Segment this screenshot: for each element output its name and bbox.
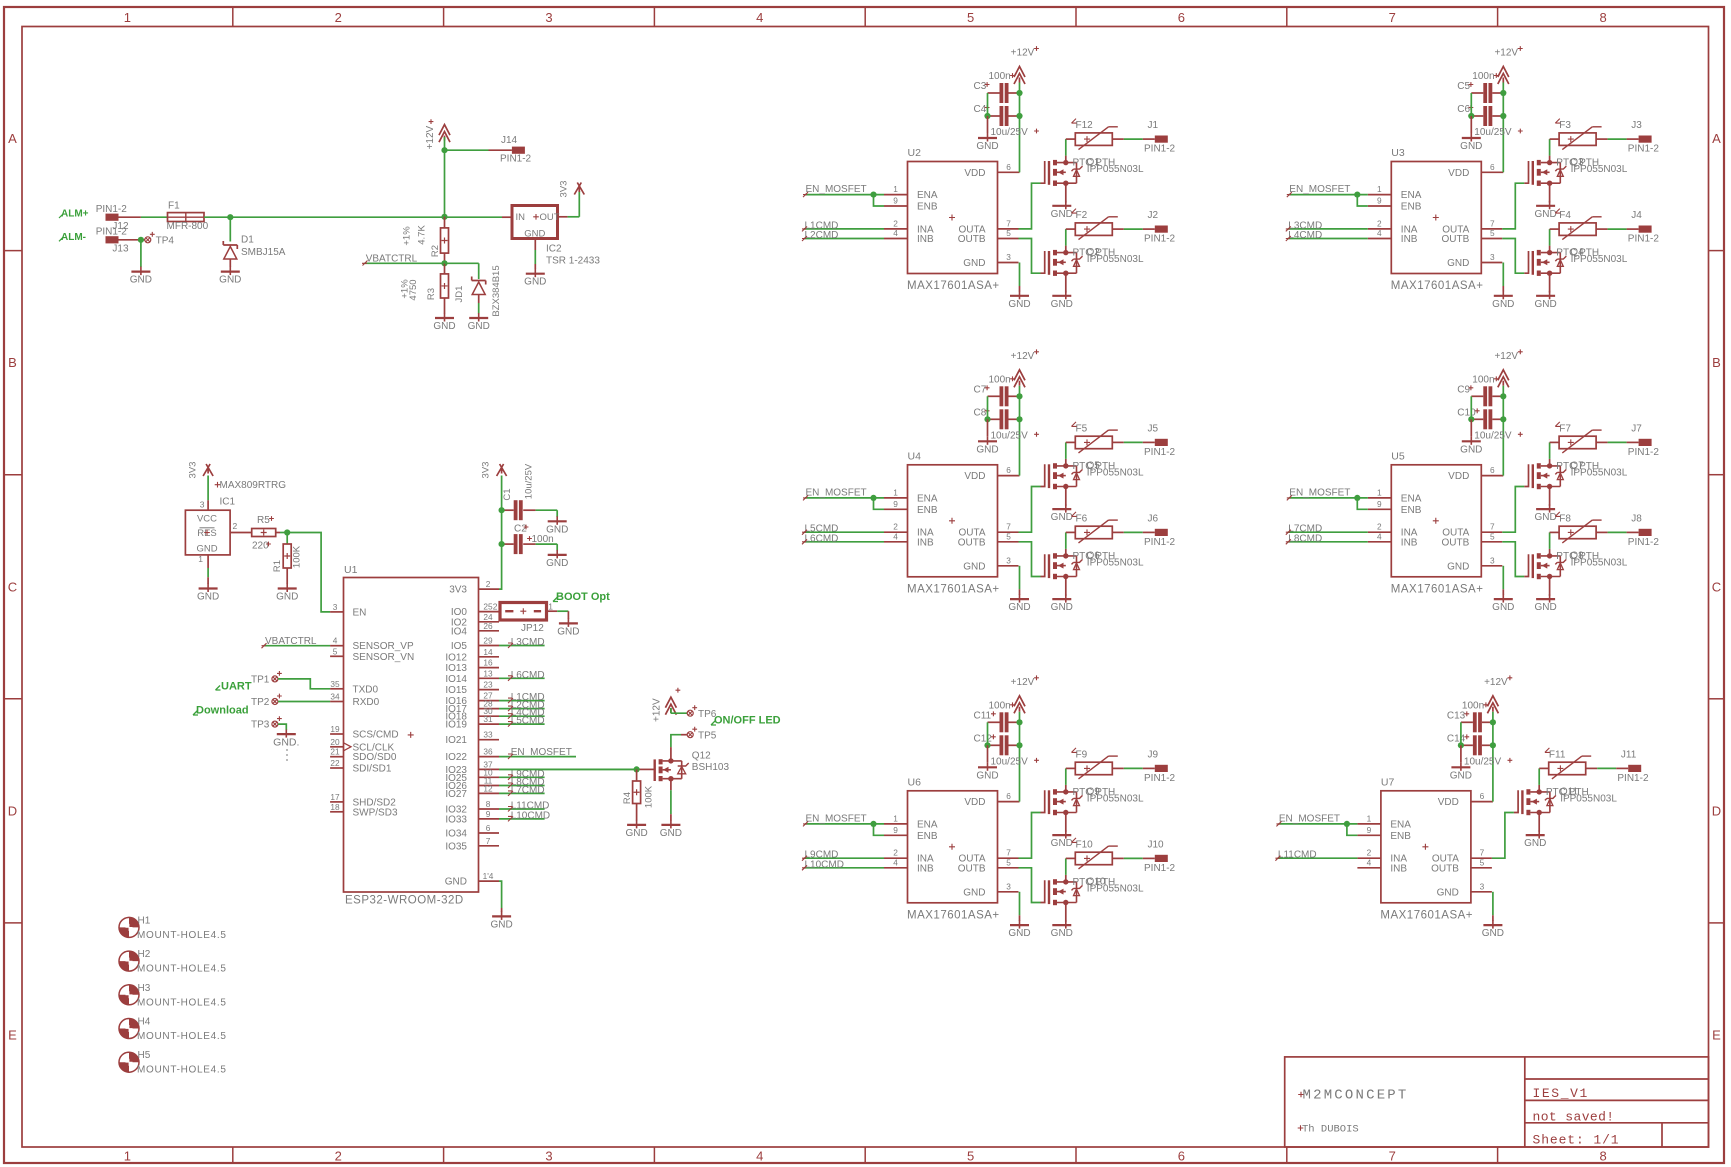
svg-text:GND: GND — [625, 828, 647, 839]
svg-text:MAX17601ASA+: MAX17601ASA+ — [1391, 583, 1484, 595]
svg-text:MAX17601ASA+: MAX17601ASA+ — [907, 909, 1000, 921]
net stub L1CMD — [499, 692, 545, 703]
net stub EN_MOSFET (U4) — [803, 487, 884, 500]
U1 pin SENSOR_VN (pin 5) — [330, 646, 414, 663]
svg-text:6: 6 — [1480, 791, 1485, 801]
junction at R5/R1 — [284, 529, 290, 535]
svg-text:L2CMD: L2CMD — [805, 230, 839, 241]
junction C11 right — [1016, 719, 1022, 725]
U1 pin IO14 (pin 13) — [445, 668, 499, 685]
net stub L9CMD — [802, 850, 884, 861]
ground (Q11) — [1524, 830, 1546, 849]
svg-text:L5CMD: L5CMD — [511, 716, 545, 727]
svg-text:4: 4 — [893, 531, 898, 541]
capacitor C6 (10u/25V) — [1457, 104, 1522, 138]
transistor Q7 — [1533, 460, 1628, 489]
svg-text:3: 3 — [1490, 252, 1495, 262]
svg-text:GND: GND — [1460, 141, 1482, 152]
ground (Q2) — [1051, 291, 1073, 310]
svg-text:INB: INB — [1390, 863, 1407, 874]
svg-text:MOUNT-HOLE4.5: MOUNT-HOLE4.5 — [137, 997, 227, 1008]
net label Download — [193, 705, 249, 717]
PTC fuse F10 — [1066, 838, 1118, 869]
svg-text:F8: F8 — [1559, 513, 1571, 524]
transistor Q8 — [1533, 550, 1628, 579]
svg-text:IC2: IC2 — [546, 244, 562, 255]
svg-text:JP12: JP12 — [521, 623, 544, 634]
svg-text:C4: C4 — [974, 104, 987, 115]
+12V rail wire (U5) — [1502, 386, 1504, 476]
U1 pin SENSOR_VP (pin 4) — [330, 636, 414, 653]
svg-text:GND: GND — [546, 558, 568, 569]
U1 pin IO17 (pin 28) — [445, 699, 499, 716]
ground (U3) — [1492, 291, 1514, 310]
svg-text:INB: INB — [1401, 537, 1418, 548]
3V3 supply symbol — [481, 462, 507, 479]
svg-text:GND: GND — [1492, 299, 1514, 310]
net label BOOT Opt — [553, 591, 610, 603]
ground (U2) — [1008, 291, 1030, 310]
svg-text:2: 2 — [233, 521, 238, 531]
svg-text:BOOT Opt: BOOT Opt — [556, 591, 610, 603]
ground (Q4) — [1534, 291, 1556, 310]
ground (Q1) — [1051, 201, 1073, 220]
capacitor C9 (100n) — [1457, 374, 1503, 406]
net stub L2CMD — [802, 230, 884, 241]
svg-text:6: 6 — [1178, 10, 1185, 25]
svg-text:J7: J7 — [1631, 423, 1642, 434]
capacitor C7 (100n) — [974, 374, 1020, 406]
svg-text:D: D — [1712, 803, 1721, 818]
svg-text:IES_V1: IES_V1 — [1533, 1086, 1589, 1101]
test point TP5 — [687, 727, 717, 742]
ESP32 module U1 box — [344, 564, 479, 907]
U1 pin 3V3 (pin 2) — [449, 579, 499, 596]
connector J6 — [1144, 513, 1176, 548]
wire OUT to Q3 gate — [1502, 161, 1528, 229]
svg-text:ENB: ENB — [1401, 505, 1422, 516]
junction C9 right — [1500, 393, 1506, 399]
ground (Q3) — [1534, 201, 1556, 220]
svg-text:GND: GND — [524, 277, 546, 288]
svg-text:C9: C9 — [1457, 384, 1470, 395]
wire TP5 to Q12 drain — [671, 735, 687, 756]
wire OUT to Q8 gate — [1502, 542, 1528, 577]
wire Q11 drain to F11 — [1538, 768, 1540, 792]
mount hole H4 — [119, 1017, 227, 1043]
ground (caps U5) — [1460, 436, 1482, 455]
net stub EN_MOSFET (U7) — [1276, 813, 1357, 826]
svg-text:ENA: ENA — [1401, 190, 1422, 201]
svg-text:7: 7 — [1490, 218, 1495, 228]
svg-text:2: 2 — [893, 218, 898, 228]
svg-text:PIN1-2: PIN1-2 — [1144, 863, 1176, 874]
svg-text:SCS/CMD: SCS/CMD — [353, 730, 399, 741]
title block sheet text — [1533, 1133, 1620, 1148]
svg-text:8: 8 — [1599, 1149, 1606, 1164]
net stub L1CMD — [802, 220, 884, 231]
wire F1 to IC2 (+12V net) — [204, 216, 512, 218]
ground (caps U4) — [976, 436, 998, 455]
svg-text:MAX17601ASA+: MAX17601ASA+ — [907, 583, 1000, 595]
net stub EN_MOSFET (U5) — [1287, 487, 1368, 500]
svg-text:23: 23 — [483, 680, 493, 690]
ground (Q7) — [1534, 504, 1556, 523]
svg-text:10u/25V: 10u/25V — [991, 430, 1029, 441]
svg-text:D1: D1 — [241, 235, 254, 246]
net label ON/OFF LED — [711, 715, 781, 727]
svg-text:10u/25V: 10u/25V — [1474, 127, 1512, 138]
junction C14 left — [1458, 742, 1464, 748]
ground (U1) — [490, 911, 512, 930]
mount hole H2 — [119, 949, 227, 975]
svg-text:5: 5 — [967, 1149, 974, 1164]
svg-text:35: 35 — [330, 679, 340, 689]
svg-text:R4: R4 — [622, 792, 633, 804]
svg-text:F1: F1 — [168, 201, 180, 212]
svg-text:L10CMD: L10CMD — [511, 810, 550, 821]
+12V rail wire (U6) — [1019, 712, 1021, 802]
net stub L5CMD — [802, 524, 884, 535]
ground (D1) — [219, 267, 241, 286]
U1 pin IO5 (pin 29) — [451, 636, 499, 653]
junction C8 left — [984, 416, 990, 422]
svg-text:ENA: ENA — [917, 493, 938, 504]
PTC fuse F2 — [1066, 209, 1118, 240]
transistor Q12 — [649, 751, 730, 782]
svg-text:3: 3 — [333, 602, 338, 612]
svg-text:10u/25V: 10u/25V — [991, 756, 1029, 767]
junction C12 left — [984, 742, 990, 748]
svg-text:PIN1-2: PIN1-2 — [1628, 447, 1660, 458]
svg-text:25: 25 — [483, 602, 493, 612]
net stub L4CMD — [1286, 230, 1368, 241]
wire F5 to J5 — [1112, 441, 1155, 443]
cap ground wire (U6) — [987, 722, 989, 762]
wire Q9 drain to F9 — [1065, 768, 1067, 792]
title block last change text — [1533, 1110, 1615, 1125]
wire EN junction to ENB — [1357, 498, 1368, 509]
svg-text:not saved!: not saved! — [1533, 1110, 1615, 1125]
svg-text:L3CMD: L3CMD — [511, 637, 545, 648]
frame row labels right — [1712, 131, 1721, 1043]
svg-text:10u/25V: 10u/25V — [1474, 430, 1512, 441]
svg-text:GND: GND — [1534, 512, 1556, 523]
svg-text:VDD: VDD — [964, 168, 985, 179]
transistor Q6 — [1049, 550, 1144, 579]
mount hole H3 — [119, 983, 227, 1009]
junction EN (U4) — [870, 495, 876, 501]
svg-text:GND: GND — [963, 887, 985, 898]
svg-text:TXD0: TXD0 — [353, 684, 379, 695]
U1 pin SCL/CLK (pin 20) — [330, 737, 394, 754]
svg-text:Th DUBOIS: Th DUBOIS — [1302, 1124, 1359, 1136]
wire U1 GND pin to ground — [499, 881, 502, 912]
wire EN junction to ENB — [874, 824, 885, 835]
connector J8 — [1628, 513, 1660, 548]
U1 pin IO18 (pin 30) — [445, 706, 499, 723]
net stub L5CMD — [499, 716, 545, 727]
wire Q5 source to ground — [1065, 487, 1067, 506]
svg-text:5: 5 — [967, 10, 974, 25]
svg-text:4: 4 — [1367, 857, 1372, 867]
svg-text:GND: GND — [1051, 838, 1073, 849]
svg-text:VCC: VCC — [197, 514, 217, 525]
svg-text:VDD: VDD — [1448, 168, 1469, 179]
svg-text:GND: GND — [219, 275, 241, 286]
svg-text:IPP055N03L: IPP055N03L — [1571, 467, 1628, 478]
PTC fuse F11 — [1539, 748, 1591, 779]
cap ground wire (U3) — [1470, 93, 1472, 133]
title block drawing name — [1533, 1086, 1589, 1101]
svg-text:GND: GND — [1534, 602, 1556, 613]
test point TP1 — [251, 671, 282, 686]
svg-text:IPP055N03L: IPP055N03L — [1087, 557, 1144, 568]
svg-text:6: 6 — [1490, 162, 1495, 172]
svg-text:F7: F7 — [1559, 423, 1571, 434]
svg-text:1: 1 — [124, 1149, 131, 1164]
junction EN (U7) — [1344, 821, 1350, 827]
svg-text:OUTB: OUTB — [958, 863, 986, 874]
svg-text:PIN1-2: PIN1-2 — [500, 154, 532, 165]
svg-text:TSR 1-2433: TSR 1-2433 — [546, 255, 600, 266]
svg-text:GND: GND — [1534, 209, 1556, 220]
svg-text:IC1: IC1 — [220, 497, 236, 508]
svg-text:VDD: VDD — [1448, 471, 1469, 482]
svg-text:2: 2 — [1367, 848, 1372, 858]
ground (C1) — [546, 516, 568, 535]
wire F10 to J10 — [1112, 857, 1155, 859]
svg-text:20: 20 — [330, 737, 340, 747]
svg-text:L6CMD: L6CMD — [805, 533, 839, 544]
junction EN (U2) — [870, 192, 876, 198]
svg-text:1: 1 — [893, 184, 898, 194]
wire Q7 drain to F7 — [1549, 442, 1551, 466]
resistor R2 — [402, 217, 449, 263]
svg-text:PIN1-2: PIN1-2 — [1144, 537, 1176, 548]
wire VBATCTRL junction to JD1 — [445, 263, 479, 279]
svg-text:9: 9 — [486, 809, 491, 819]
transistor Q4 — [1533, 247, 1628, 276]
net stub L10CMD — [499, 810, 550, 821]
svg-text:2: 2 — [1377, 522, 1382, 532]
junction at C2 — [499, 541, 505, 547]
svg-text:GND: GND — [557, 626, 579, 637]
ground (caps U6) — [976, 762, 998, 781]
svg-text:INB: INB — [917, 234, 934, 245]
svg-text:EN: EN — [353, 607, 367, 618]
connector J11 — [1617, 749, 1649, 784]
connector J4 — [1628, 210, 1660, 245]
svg-text:100n: 100n — [989, 71, 1011, 82]
svg-text:A: A — [8, 131, 17, 146]
svg-text:PIN1-2: PIN1-2 — [1628, 234, 1660, 245]
ground (R3) — [433, 313, 455, 332]
svg-text:IO35: IO35 — [445, 841, 467, 852]
PTC fuse F12 — [1066, 119, 1118, 150]
svg-text:C: C — [8, 579, 17, 594]
svg-text:GND: GND — [1524, 838, 1546, 849]
svg-text:7: 7 — [1389, 1149, 1396, 1164]
svg-text:19: 19 — [330, 724, 340, 734]
svg-text:L8CMD: L8CMD — [1288, 533, 1322, 544]
wire Q2 drain to F2 — [1065, 229, 1067, 253]
svg-text:SDO/SD0: SDO/SD0 — [353, 752, 397, 763]
svg-text:E: E — [1712, 1028, 1721, 1043]
svg-text:GND: GND — [1008, 299, 1030, 310]
svg-text:OUT: OUT — [540, 212, 560, 223]
svg-text:SWP/SD3: SWP/SD3 — [353, 807, 398, 818]
svg-text:4750: 4750 — [408, 279, 419, 300]
PTC fuse F6 — [1066, 512, 1118, 543]
svg-text:4.7K: 4.7K — [417, 225, 428, 245]
svg-text:BSH103: BSH103 — [692, 762, 730, 773]
svg-text:IPP055N03L: IPP055N03L — [1087, 883, 1144, 894]
svg-text:UART: UART — [221, 681, 252, 693]
svg-text:PIN1-2: PIN1-2 — [1144, 447, 1176, 458]
net stub L7CMD — [1286, 524, 1368, 535]
resistor R5 — [252, 515, 276, 552]
driver IC U5 box — [1368, 450, 1504, 595]
svg-text:1: 1 — [893, 487, 898, 497]
svg-text:F9: F9 — [1076, 749, 1088, 760]
junction C6 left — [1468, 113, 1474, 119]
svg-text:7: 7 — [486, 836, 491, 846]
svg-text:GND: GND — [1460, 444, 1482, 455]
wire F6 to J6 — [1112, 531, 1155, 533]
wire Q9 source to ground — [1065, 813, 1067, 832]
svg-text:SMBJ15A: SMBJ15A — [241, 247, 286, 258]
driver IC U7 box — [1357, 776, 1493, 921]
svg-text:L4CMD: L4CMD — [1288, 230, 1322, 241]
IC1 pin2 lead — [230, 521, 252, 533]
svg-text:OUTB: OUTB — [1442, 234, 1470, 245]
svg-text:ENA: ENA — [917, 819, 938, 830]
svg-text:9: 9 — [893, 499, 898, 509]
wire U1 3V3 pin to 3V3 rail — [499, 476, 502, 590]
svg-text:L6CMD: L6CMD — [511, 670, 545, 681]
wire F2 to J2 — [1112, 228, 1155, 230]
net label ALM- — [59, 232, 86, 243]
wire Q3 source to ground — [1549, 183, 1551, 202]
svg-text:OUTB: OUTB — [958, 234, 986, 245]
wire TP2 to RXD0 — [278, 701, 330, 703]
capacitor C13 (100n) — [1447, 700, 1493, 732]
svg-text:3: 3 — [1006, 252, 1011, 262]
svg-text:7: 7 — [1490, 522, 1495, 532]
cap ground wire (U5) — [1470, 396, 1472, 436]
junction C13 right — [1490, 719, 1496, 725]
junction at R4 — [634, 766, 640, 772]
svg-text:100n: 100n — [989, 374, 1011, 385]
svg-text:GND: GND — [660, 828, 682, 839]
PTC fuse F4 — [1550, 209, 1602, 240]
svg-text:INB: INB — [917, 863, 934, 874]
svg-text:IO5: IO5 — [451, 641, 468, 652]
svg-text:7: 7 — [1006, 848, 1011, 858]
svg-text:EN_MOSFET: EN_MOSFET — [1289, 487, 1350, 498]
svg-text:OUTB: OUTB — [1431, 863, 1459, 874]
svg-text:7: 7 — [1480, 848, 1485, 858]
wire IO23 to Q12 gate — [499, 768, 649, 770]
junction EN (U6) — [870, 821, 876, 827]
svg-text:H4: H4 — [138, 1017, 151, 1028]
transistor Q5 — [1049, 460, 1144, 489]
connector J12 — [96, 204, 129, 232]
ground (TP3) — [273, 730, 299, 762]
svg-text:MOUNT-HOLE4.5: MOUNT-HOLE4.5 — [137, 930, 227, 941]
svg-text:1: 1 — [124, 10, 131, 25]
svg-text:5: 5 — [333, 646, 338, 656]
PTC fuse F3 — [1550, 119, 1602, 150]
wire Q11 source to ground — [1538, 813, 1540, 832]
ground (IC1) — [197, 584, 219, 603]
svg-text:IPP055N03L: IPP055N03L — [1087, 164, 1144, 175]
svg-text:IN: IN — [516, 212, 526, 223]
svg-text:ENA: ENA — [1401, 493, 1422, 504]
wire OUT to Q10 gate — [1019, 868, 1045, 903]
svg-text:ALM-: ALM- — [61, 232, 86, 243]
svg-text:9: 9 — [1377, 196, 1382, 206]
wire U6 GND pin to ground — [1019, 892, 1021, 921]
capacitor C4 (10u/25V) — [974, 104, 1039, 138]
U1 pin IO27 (pin 12) — [445, 783, 499, 800]
frame row ticks left — [4, 251, 22, 923]
wire EN junction to ENB — [874, 498, 885, 509]
net stub L8CMD — [1286, 533, 1368, 544]
U1 pin IO26 (pin 11) — [445, 776, 499, 793]
+12V supply symbol — [1494, 349, 1522, 387]
+12V rail wire (U7) — [1492, 712, 1494, 802]
wire IC2 GND — [534, 239, 536, 270]
svg-text:6: 6 — [486, 823, 491, 833]
net stub EN_MOSFET (U1) — [499, 747, 576, 759]
IC1 GND pin wire — [198, 554, 208, 584]
+12V supply symbol — [1011, 675, 1039, 713]
svg-text:SDI/SD1: SDI/SD1 — [353, 764, 392, 775]
connector J14 — [500, 135, 532, 165]
svg-text:22: 22 — [330, 758, 340, 768]
svg-text:GND: GND — [976, 770, 998, 781]
svg-text:D: D — [8, 803, 17, 818]
svg-text:J1: J1 — [1148, 120, 1159, 131]
U1 pin IO4 (pin 26) — [451, 621, 499, 638]
PTC fuse F5 — [1066, 422, 1118, 453]
3V3 supply symbol — [188, 462, 214, 479]
ground (C2) — [546, 550, 568, 569]
svg-text:21: 21 — [330, 747, 340, 757]
ground (Q9) — [1051, 830, 1073, 849]
title block author text — [1298, 1124, 1359, 1136]
svg-text:IO21: IO21 — [445, 735, 467, 746]
svg-text:IO13: IO13 — [445, 663, 467, 674]
svg-text:J6: J6 — [1148, 513, 1159, 524]
svg-text:1: 1 — [1377, 184, 1382, 194]
svg-text:GND: GND — [490, 919, 512, 930]
svg-text:GND: GND — [963, 258, 985, 269]
driver IC U4 box — [884, 450, 1020, 595]
svg-text:GND: GND — [197, 592, 219, 603]
svg-text:3: 3 — [1006, 555, 1011, 565]
svg-text:13: 13 — [483, 668, 493, 678]
connector J5 — [1144, 423, 1176, 458]
svg-text:J4: J4 — [1631, 210, 1642, 221]
svg-text:INB: INB — [1401, 234, 1418, 245]
svg-text:GND: GND — [276, 592, 298, 603]
svg-text:J5: J5 — [1148, 423, 1159, 434]
svg-text:MAX17601ASA+: MAX17601ASA+ — [1380, 909, 1473, 921]
svg-text:6: 6 — [1490, 465, 1495, 475]
